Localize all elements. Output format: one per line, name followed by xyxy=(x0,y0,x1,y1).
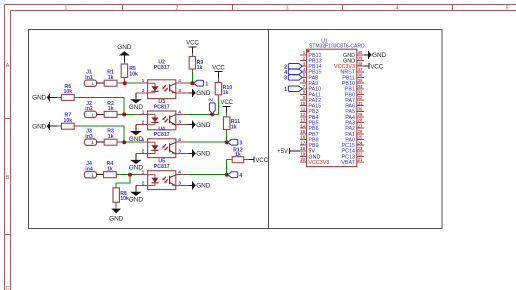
svg-text:in4: in4 xyxy=(85,166,93,172)
svg-text:GND: GND xyxy=(109,215,124,222)
svg-text:15: 15 xyxy=(300,129,305,134)
port 3 net flag at PA8 xyxy=(284,75,302,82)
wire R3 lead xyxy=(117,141,120,143)
wire R8 bottom lead xyxy=(115,202,117,208)
svg-text:PC817: PC817 xyxy=(154,132,170,138)
svg-text:VCC: VCC xyxy=(370,64,383,70)
svg-text:in1: in1 xyxy=(85,75,93,81)
svg-text:21: 21 xyxy=(358,157,363,162)
wire node to U2 pin 1 xyxy=(125,82,137,84)
node row1 left junction xyxy=(123,81,127,85)
svg-text:1: 1 xyxy=(142,78,145,83)
svg-text:PC817: PC817 xyxy=(154,105,170,111)
wire R4 lead xyxy=(116,174,120,176)
svg-text:1: 1 xyxy=(142,109,145,114)
wire R9 to node OUT1 xyxy=(191,72,193,83)
svg-text:GND: GND xyxy=(32,95,47,102)
svg-text:4: 4 xyxy=(178,109,181,114)
resistor R2 xyxy=(104,101,117,118)
svg-text:17: 17 xyxy=(300,140,305,145)
wire +5V to pin 18 xyxy=(295,150,300,152)
svg-text:20: 20 xyxy=(300,157,305,162)
ground GND at U2 pin 2 xyxy=(129,93,144,111)
ground GND at U2 pin 3 xyxy=(188,89,210,97)
node OUT3 junction xyxy=(225,140,229,144)
wire R5 top lead xyxy=(123,62,125,65)
port 3 net flag xyxy=(228,139,243,146)
node port 2 junction xyxy=(210,112,214,116)
svg-text:2: 2 xyxy=(208,98,214,101)
port 4 net flag xyxy=(228,172,243,179)
wire GND to R7 xyxy=(50,125,62,127)
svg-text:in2: in2 xyxy=(85,106,93,112)
ground GND at U3 pin 2 xyxy=(129,125,144,143)
ground GND at U5 pin 3 xyxy=(188,181,210,189)
svg-text:4: 4 xyxy=(178,78,181,83)
svg-text:C: C xyxy=(6,286,10,290)
svg-text:33: 33 xyxy=(358,89,363,94)
svg-text:GND: GND xyxy=(196,122,211,129)
svg-text:34: 34 xyxy=(358,84,363,89)
svg-text:12: 12 xyxy=(300,112,305,117)
port 2 net flag xyxy=(208,98,215,114)
svg-text:3: 3 xyxy=(239,141,242,147)
svg-text:GND: GND xyxy=(196,183,211,190)
svg-text:PC817: PC817 xyxy=(154,164,170,170)
resistor R12 xyxy=(232,148,244,163)
wire U5 pin 4 to node OUT4 xyxy=(187,174,227,176)
wire R9 bottom lead xyxy=(191,69,193,72)
wire GND to R6 xyxy=(50,96,62,98)
sheet divider line xyxy=(268,30,270,229)
resistor R6 xyxy=(61,84,74,101)
svg-text:8: 8 xyxy=(303,89,306,94)
svg-text:40: 40 xyxy=(358,50,363,55)
svg-text:24: 24 xyxy=(358,140,363,145)
svg-text:37: 37 xyxy=(358,67,363,72)
node row4 junction xyxy=(128,173,132,177)
svg-text:1: 1 xyxy=(65,6,68,12)
power VCC above R9 xyxy=(186,40,199,52)
svg-text:27: 27 xyxy=(358,123,363,128)
svg-text:2: 2 xyxy=(303,56,306,61)
wire R11 top lead xyxy=(226,112,228,117)
node OUT4 junction xyxy=(225,173,229,177)
svg-text:VBAT: VBAT xyxy=(341,160,355,166)
node OUT1 junction xyxy=(190,81,194,85)
svg-text:5: 5 xyxy=(506,6,509,12)
port 1 net flag at PA10 xyxy=(284,86,302,93)
svg-text:35: 35 xyxy=(358,78,363,83)
wire pin 40 to GND xyxy=(364,54,368,56)
wire R11 bottom lead xyxy=(226,130,228,135)
svg-text:3: 3 xyxy=(303,61,306,66)
svg-text:VCC: VCC xyxy=(220,100,233,106)
svg-text:1k: 1k xyxy=(231,124,237,130)
wire node OUT4 up to R12 xyxy=(226,160,228,175)
svg-text:3: 3 xyxy=(178,120,181,125)
wire row4 node to U5 pin 1 xyxy=(120,174,137,176)
wire R10 bottom lead xyxy=(217,95,219,99)
wire R10 top lead xyxy=(217,78,219,83)
power VCC above R10 xyxy=(212,65,225,77)
svg-text:GND: GND xyxy=(372,52,387,59)
resistor R5 xyxy=(121,64,138,78)
wire J2 pin xyxy=(97,113,105,115)
connector J4 xyxy=(84,161,96,178)
node row2 junction xyxy=(122,112,126,116)
wire U3 pin 4 to R10 xyxy=(187,113,218,115)
svg-text:4: 4 xyxy=(396,6,399,12)
svg-text:1k: 1k xyxy=(235,152,241,158)
svg-text:1: 1 xyxy=(142,137,145,142)
svg-text:4: 4 xyxy=(239,173,242,179)
svg-text:VCC: VCC xyxy=(186,40,199,46)
port 2 net flag at PB14 xyxy=(284,63,302,70)
svg-text:6: 6 xyxy=(303,78,306,83)
svg-text:2: 2 xyxy=(142,88,145,93)
svg-text:9: 9 xyxy=(303,95,306,100)
svg-text:3: 3 xyxy=(178,149,181,154)
svg-text:B: B xyxy=(6,175,10,181)
svg-text:30: 30 xyxy=(358,106,363,111)
wire R2 lead xyxy=(117,113,120,115)
svg-text:GND: GND xyxy=(117,44,132,51)
svg-text:GND: GND xyxy=(196,151,211,158)
svg-text:28: 28 xyxy=(358,118,363,123)
ground GND at pin 40 xyxy=(364,51,386,59)
svg-text:39: 39 xyxy=(358,56,363,61)
svg-text:4: 4 xyxy=(178,170,181,175)
svg-text:32: 32 xyxy=(358,95,363,100)
node row3 junction xyxy=(122,140,126,144)
svg-text:14: 14 xyxy=(300,123,305,128)
svg-text:7: 7 xyxy=(303,84,306,89)
svg-text:A: A xyxy=(6,63,10,69)
svg-text:3: 3 xyxy=(178,180,181,185)
wire J4 pin xyxy=(97,174,104,176)
svg-text:1k: 1k xyxy=(108,75,114,81)
connector J3 xyxy=(84,129,96,146)
op-amp U5 PC817 optocoupler xyxy=(136,159,187,190)
op-amp U2 PC817 optocoupler xyxy=(136,59,187,98)
ground GND top of R5 xyxy=(117,44,132,61)
svg-text:31: 31 xyxy=(358,101,363,106)
svg-text:10k: 10k xyxy=(63,89,72,95)
svg-text:3: 3 xyxy=(286,6,289,12)
wire R10 to row2 net xyxy=(217,99,219,114)
svg-text:VCC: VCC xyxy=(255,158,268,164)
wire R6 to row2 node xyxy=(78,97,124,114)
wire R11 to row3 net xyxy=(226,134,228,142)
svg-text:2: 2 xyxy=(176,6,179,12)
svg-text:1k: 1k xyxy=(197,65,203,71)
svg-text:1: 1 xyxy=(284,87,287,93)
svg-text:1k: 1k xyxy=(223,90,229,96)
resistor R7 xyxy=(61,113,74,130)
connector J1 xyxy=(84,70,96,87)
wire U4 pin 3 to GND xyxy=(187,153,188,155)
wire J1 pin xyxy=(97,82,105,84)
wire R9 top lead xyxy=(191,53,193,57)
svg-text:VCC: VCC xyxy=(212,65,225,71)
svg-text:1: 1 xyxy=(303,50,306,55)
svg-text:4: 4 xyxy=(303,67,306,72)
wire R7 lead xyxy=(74,125,78,127)
wire R7 to row3 node xyxy=(78,126,124,142)
wire row2 node to U3 pin 1 xyxy=(120,113,137,115)
power VCC above R11 xyxy=(220,100,233,112)
svg-text:36: 36 xyxy=(358,73,363,78)
svg-text:1k: 1k xyxy=(107,166,113,172)
connector J2 xyxy=(84,101,96,118)
power VCC at R12 xyxy=(249,157,269,164)
svg-text:29: 29 xyxy=(358,112,363,117)
svg-text:4: 4 xyxy=(178,137,181,142)
wire U2 pin 4 to node OUT1 xyxy=(187,82,192,84)
svg-text:5: 5 xyxy=(303,73,306,78)
port 1 net flag xyxy=(194,80,209,87)
resistor R1 xyxy=(104,70,117,87)
svg-text:2: 2 xyxy=(142,120,145,125)
svg-text:13: 13 xyxy=(300,118,305,123)
resistor R3 xyxy=(104,129,117,146)
svg-text:1: 1 xyxy=(142,170,145,175)
svg-text:22: 22 xyxy=(358,152,363,157)
svg-text:2: 2 xyxy=(142,180,145,185)
wire row3 node to U4 pin 1 xyxy=(120,141,137,143)
svg-text:18: 18 xyxy=(300,146,305,151)
svg-text:10k: 10k xyxy=(120,196,129,202)
svg-text:VCC3V3: VCC3V3 xyxy=(308,160,329,166)
svg-text:GND: GND xyxy=(129,197,144,204)
wire node to R8 xyxy=(116,175,130,188)
resistor R11 xyxy=(224,117,241,130)
ground GND at U4 pin 3 xyxy=(188,150,210,158)
wire U3 pin 3 to GND xyxy=(187,124,188,126)
resistor R10 xyxy=(215,83,232,97)
svg-text:1k: 1k xyxy=(108,106,114,112)
svg-text:1k: 1k xyxy=(108,134,114,140)
svg-text:GND: GND xyxy=(32,123,47,130)
svg-text:+5V: +5V xyxy=(277,149,288,155)
wire R12 left lead xyxy=(227,159,233,161)
svg-text:23: 23 xyxy=(358,146,363,151)
svg-text:PC817: PC817 xyxy=(154,65,170,71)
op-amp U3 PC817 optocoupler xyxy=(136,99,187,130)
ground GND at R7 xyxy=(32,122,50,130)
svg-text:25: 25 xyxy=(358,135,363,140)
port 4 net flag at PB15 xyxy=(284,69,302,76)
microcontroller U1 STM32F103C8T6-CARD xyxy=(300,38,365,166)
svg-text:3: 3 xyxy=(178,88,181,93)
ground GND below R8 xyxy=(109,209,124,223)
svg-text:26: 26 xyxy=(358,129,363,134)
wire J3 pin xyxy=(97,141,105,143)
power +5V at pin 18 xyxy=(277,148,294,155)
svg-text:3: 3 xyxy=(284,76,287,82)
resistor R8 xyxy=(113,188,129,203)
svg-text:10k: 10k xyxy=(129,71,138,77)
svg-text:GND: GND xyxy=(196,90,211,97)
svg-text:19: 19 xyxy=(300,152,305,157)
wire U4 pin 4 to node OUT3 xyxy=(187,141,227,143)
ground GND at U3 pin 3 xyxy=(188,121,210,129)
ground GND at R6 xyxy=(32,93,50,101)
svg-text:10k: 10k xyxy=(63,118,72,124)
wire R6 lead xyxy=(74,96,78,98)
svg-text:38: 38 xyxy=(358,61,363,66)
op-amp U4 PC817 optocoupler xyxy=(136,127,187,158)
resistor R4 xyxy=(104,161,117,178)
schematic sheet border xyxy=(29,30,443,229)
svg-text:16: 16 xyxy=(300,135,305,140)
ground GND at U4 pin 2 xyxy=(129,154,144,172)
wire R1 to node xyxy=(117,82,125,84)
wire U2 pin 3 to GND xyxy=(187,92,188,94)
ground GND at U5 pin 2 xyxy=(129,185,144,203)
power VCC at pin 38 xyxy=(364,63,384,70)
svg-text:10: 10 xyxy=(300,101,305,106)
resistor R9 xyxy=(189,57,203,71)
wire U5 pin 3 to GND xyxy=(187,184,188,186)
svg-text:11: 11 xyxy=(301,106,306,111)
svg-text:2: 2 xyxy=(142,149,145,154)
svg-text:in3: in3 xyxy=(85,134,93,140)
wire R5 bottom lead xyxy=(123,78,125,84)
wire R12 right lead xyxy=(244,159,250,161)
svg-text:1: 1 xyxy=(205,82,208,88)
